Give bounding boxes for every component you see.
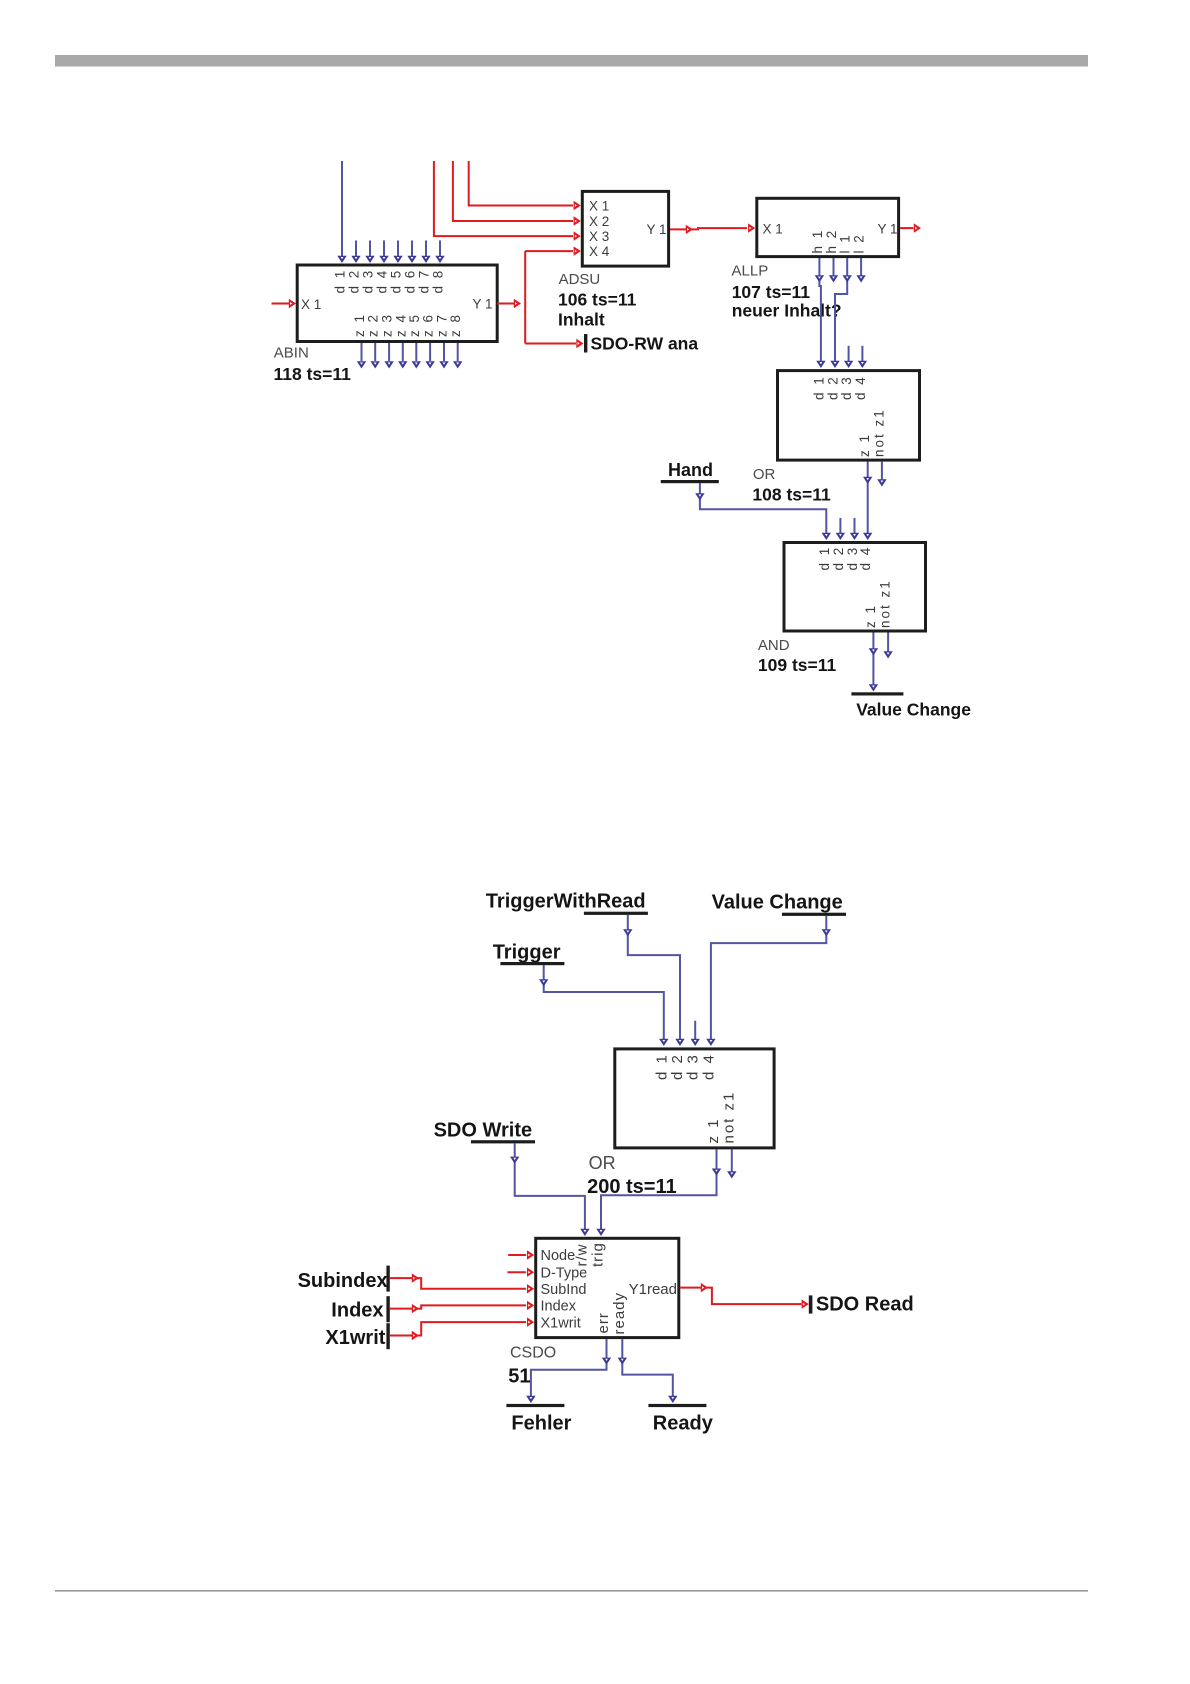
- svg-text:ready: ready: [611, 1292, 628, 1335]
- CSDO value label 51: [508, 1365, 530, 1387]
- wire AND z1 to Value Change: [869, 633, 878, 692]
- svg-text:d 4: d 4: [853, 375, 868, 400]
- svg-text:l 2: l 2: [852, 233, 867, 253]
- wire OR d3 input stub: [844, 346, 853, 368]
- ABIN value label 118 ts=11: [274, 364, 352, 384]
- svg-text:d 5: d 5: [389, 269, 404, 294]
- block CSDO U51: [536, 1238, 679, 1337]
- wire Subindex to CSDO SubInd: [390, 1273, 534, 1293]
- ABIN bottom pin labels z1-z8: [352, 313, 463, 337]
- OR2 value label 200 ts=11: [587, 1176, 677, 1198]
- wire ALLP h2 stub: [829, 258, 838, 283]
- block OR2 U200: [615, 1049, 774, 1148]
- AND value label 109 ts=11: [758, 655, 837, 675]
- svg-text:106 ts=11: 106 ts=11: [558, 289, 637, 309]
- svg-text:z 1: z 1: [857, 433, 872, 457]
- svg-text:107 ts=11: 107 ts=11: [732, 282, 811, 302]
- wire AND d3 input stub: [850, 518, 859, 540]
- wire CSDO ready to Ready: [618, 1339, 678, 1403]
- svg-text:err: err: [595, 1312, 612, 1333]
- wire Node input stub: [508, 1250, 534, 1259]
- svg-text:X 2: X 2: [589, 214, 609, 229]
- wire Trigger to OR d1: [539, 965, 669, 1046]
- terminal bar Hand: [661, 480, 719, 483]
- svg-text:z 5: z 5: [407, 313, 422, 337]
- svg-text:108 ts=11: 108 ts=11: [752, 485, 831, 505]
- svg-text:Hand: Hand: [668, 460, 713, 480]
- block ABIN U118: [297, 265, 497, 342]
- svg-text:z 1: z 1: [863, 604, 878, 628]
- wire D-Type input stub: [508, 1268, 535, 1277]
- terminal bar Value Change: [851, 692, 903, 695]
- svg-text:ADSU: ADSU: [559, 271, 601, 288]
- wire blue long input to ABIN d1: [337, 161, 346, 263]
- svg-text:d 6: d 6: [403, 269, 418, 294]
- OR2 bottom pin label not z1: [721, 1091, 738, 1144]
- OR bottom pin label not z1: [871, 408, 886, 457]
- svg-text:Y 1: Y 1: [472, 297, 492, 312]
- ALLP label: [732, 262, 769, 279]
- wire AND d2 input stub: [836, 518, 845, 540]
- svg-text:TriggerWithRead: TriggerWithRead: [486, 891, 646, 913]
- svg-text:CSDO: CSDO: [510, 1344, 556, 1361]
- ADSU pin label Y 1: [646, 222, 666, 237]
- CSDO top pin label trig: [589, 1242, 606, 1267]
- svg-text:d 1: d 1: [333, 269, 348, 294]
- svg-text:not z1: not z1: [871, 408, 886, 457]
- svg-text:Fehler: Fehler: [511, 1412, 571, 1434]
- AND bottom pin label not z1: [878, 579, 893, 628]
- svg-text:Ready: Ready: [653, 1412, 714, 1434]
- page top gray bar: [55, 55, 1088, 67]
- wire ALLP l1 to OR d2: [830, 258, 852, 368]
- wire ALLP l2 stub: [856, 258, 865, 283]
- AND top pin labels d1-d4: [817, 546, 873, 571]
- CSDO left pin labels: [541, 1248, 588, 1331]
- ADSU value label Inhalt: [558, 310, 605, 330]
- svg-text:d 4: d 4: [700, 1053, 717, 1080]
- svg-text:Index: Index: [331, 1300, 383, 1322]
- terminal bar Trigger: [500, 962, 564, 965]
- wire ALLP Y1 output: [900, 223, 921, 232]
- svg-text:neuer Inhalt?: neuer Inhalt?: [732, 301, 842, 321]
- terminal label Trigger: [493, 942, 561, 964]
- svg-text:OR: OR: [753, 466, 776, 483]
- svg-text:d 8: d 8: [431, 269, 446, 294]
- OR2 bottom pin label z 1: [705, 1117, 722, 1143]
- wire OR2 not z1 stub: [727, 1149, 736, 1178]
- OR bottom pin label z 1: [857, 433, 872, 457]
- terminal label TriggerWithRead: [486, 891, 646, 913]
- svg-text:Y 1: Y 1: [877, 222, 897, 237]
- ALLP pin label X 1: [763, 222, 783, 237]
- terminal label X1writ: [325, 1327, 385, 1349]
- svg-text:51: 51: [508, 1365, 530, 1387]
- AND bottom pin label z 1: [863, 604, 878, 628]
- wire OR z1 to AND d4: [863, 462, 872, 541]
- terminal label Value Change: [856, 699, 971, 719]
- ABIN bottom output stubs z1-z8: [357, 343, 463, 369]
- wire AND not z1 stub: [883, 633, 892, 659]
- wire SDO Write to CSDO r/w: [510, 1143, 590, 1236]
- svg-text:not z1: not z1: [878, 579, 893, 628]
- terminal bar SDO Read: [809, 1295, 813, 1313]
- svg-text:l 1: l 1: [838, 233, 853, 253]
- terminal label SDO Write: [434, 1119, 533, 1141]
- svg-text:Value Change: Value Change: [712, 891, 843, 913]
- block AND U109: [784, 543, 926, 632]
- svg-text:ABIN: ABIN: [274, 345, 309, 362]
- ALLP value label neuer Inhalt?: [732, 301, 842, 321]
- block ALLP U107: [757, 198, 899, 256]
- svg-text:d 3: d 3: [685, 1053, 702, 1080]
- CSDO bottom pin label ready: [611, 1292, 628, 1335]
- svg-text:Subindex: Subindex: [298, 1270, 388, 1292]
- svg-text:d 1: d 1: [811, 375, 826, 400]
- svg-text:X 4: X 4: [589, 244, 610, 259]
- svg-text:D-Type: D-Type: [541, 1265, 588, 1281]
- ABIN pin label Y 1: [472, 297, 492, 312]
- terminal label Ready: [653, 1412, 714, 1434]
- terminal bar Fehler: [506, 1404, 564, 1407]
- ABIN top pin labels d1-d8: [333, 269, 446, 294]
- wire ADSU Y1 to ALLP X1: [670, 223, 755, 234]
- svg-text:d 2: d 2: [669, 1053, 686, 1080]
- block ADSU U106: [582, 191, 668, 266]
- svg-text:z 8: z 8: [448, 313, 463, 337]
- wire feeder to ADSU X1: [469, 161, 581, 210]
- ADSU label: [559, 271, 601, 288]
- svg-text:Node: Node: [541, 1248, 576, 1264]
- wire junction to ADSU X4: [525, 246, 581, 255]
- ABIN label: [274, 345, 309, 362]
- OR2 top pin labels d1-d4: [653, 1053, 717, 1080]
- terminal vbar Index: [386, 1296, 389, 1322]
- svg-text:AND: AND: [758, 637, 790, 654]
- wire ALLP h1 to OR d1: [815, 258, 826, 368]
- svg-text:d 4: d 4: [375, 269, 390, 294]
- wire OR d4 input stub: [858, 346, 867, 368]
- CSDO label: [510, 1344, 556, 1361]
- svg-text:X 1: X 1: [589, 199, 609, 214]
- svg-text:trig: trig: [589, 1242, 606, 1267]
- terminal bar TriggerWithRead: [584, 912, 648, 915]
- svg-text:Value Change: Value Change: [856, 699, 971, 719]
- svg-text:z 6: z 6: [421, 313, 436, 337]
- terminal label Value Change source: [712, 891, 843, 913]
- terminal label SDO Read: [816, 1294, 914, 1316]
- wire feeder to ADSU X2: [453, 161, 581, 226]
- svg-text:d 7: d 7: [417, 269, 432, 294]
- OR label: [753, 466, 776, 483]
- block OR U108: [778, 371, 920, 461]
- svg-text:r/w: r/w: [573, 1244, 590, 1267]
- page bottom divider line: [55, 1590, 1088, 1592]
- ALLP bottom pin labels h1 h2 l1 l2: [810, 229, 867, 254]
- svg-text:z 2: z 2: [366, 313, 381, 337]
- terminal label Fehler: [511, 1412, 571, 1434]
- terminal label SDO-RW ana: [591, 333, 699, 353]
- CSDO top pin label r/w: [573, 1244, 590, 1267]
- wire ABIN Y1 to junction: [497, 299, 521, 308]
- wire TriggerWithRead to OR d2: [623, 915, 685, 1046]
- svg-text:Y1read: Y1read: [629, 1281, 677, 1298]
- svg-text:OR: OR: [589, 1153, 616, 1173]
- terminal bar SDO-RW ana: [584, 334, 587, 353]
- terminal label Hand: [668, 460, 713, 480]
- terminal label Index: [331, 1300, 383, 1322]
- svg-text:not z1: not z1: [721, 1091, 738, 1144]
- OR top pin labels d1-d4: [811, 375, 868, 400]
- svg-text:X 1: X 1: [763, 222, 783, 237]
- wire input to ABIN X1: [272, 299, 297, 308]
- svg-text:SDO Write: SDO Write: [434, 1119, 533, 1141]
- svg-text:109 ts=11: 109 ts=11: [758, 655, 837, 675]
- AND label: [758, 637, 790, 654]
- svg-text:d 2: d 2: [347, 269, 362, 294]
- svg-text:d 1: d 1: [653, 1053, 670, 1080]
- wire OR2 d3 input stub: [691, 1021, 700, 1046]
- wire Index to CSDO Index: [390, 1301, 534, 1314]
- svg-text:ALLP: ALLP: [732, 262, 769, 279]
- svg-text:d 1: d 1: [817, 546, 832, 571]
- svg-text:X1writ: X1writ: [325, 1327, 385, 1349]
- svg-text:X1writ: X1writ: [541, 1315, 581, 1331]
- terminal vbar Subindex: [386, 1266, 389, 1292]
- wire CSDO err to Fehler: [526, 1339, 611, 1403]
- wire junction to SDO-RW terminal: [525, 339, 583, 348]
- svg-text:d 3: d 3: [361, 269, 376, 294]
- terminal bar SDO Write: [471, 1140, 535, 1143]
- terminal bar Value Change source: [782, 913, 846, 916]
- OR value label 108 ts=11: [752, 485, 831, 505]
- svg-text:SDO Read: SDO Read: [816, 1294, 914, 1316]
- wire OR2 z1 to CSDO trig: [596, 1149, 721, 1236]
- ADSU pin labels X1-X4: [589, 199, 610, 260]
- terminal bar Ready: [648, 1404, 706, 1407]
- wire CSDO Y1read to SDO Read: [680, 1283, 809, 1309]
- terminal vbar X1writ: [386, 1323, 389, 1349]
- svg-text:d 2: d 2: [831, 546, 846, 571]
- ADSU value label 106 ts=11: [558, 289, 637, 309]
- wire X1writ to CSDO X1writ: [390, 1317, 534, 1340]
- ALLP pin label Y 1: [877, 222, 897, 237]
- svg-text:Y 1: Y 1: [646, 222, 666, 237]
- CSDO bottom pin label err: [595, 1312, 612, 1333]
- svg-text:Inhalt: Inhalt: [558, 310, 605, 330]
- wire Value Change to OR d4: [706, 916, 831, 1046]
- svg-text:Trigger: Trigger: [493, 942, 561, 964]
- svg-text:h 1: h 1: [810, 229, 825, 254]
- ALLP value label 107 ts=11: [732, 282, 811, 302]
- svg-text:d 3: d 3: [839, 375, 854, 400]
- svg-text:SubInd: SubInd: [541, 1282, 587, 1298]
- svg-text:X 1: X 1: [301, 297, 321, 312]
- svg-text:Index: Index: [541, 1299, 577, 1315]
- svg-text:118 ts=11: 118 ts=11: [274, 364, 352, 384]
- svg-text:d 4: d 4: [858, 546, 873, 571]
- ABIN pin label X 1: [301, 297, 321, 312]
- CSDO right pin label Y1read: [629, 1281, 677, 1298]
- wire Hand to AND d1: [695, 483, 831, 540]
- terminal label Subindex: [298, 1270, 388, 1292]
- wire feeder to ADSU X3: [434, 161, 581, 241]
- wire OR not z1 stub: [877, 462, 886, 487]
- wire junction vertical: [524, 251, 526, 343]
- OR2 label: [589, 1153, 616, 1173]
- svg-text:X 3: X 3: [589, 229, 609, 244]
- ABIN top input stubs d2-d8: [351, 241, 444, 264]
- svg-text:SDO-RW ana: SDO-RW ana: [591, 333, 699, 353]
